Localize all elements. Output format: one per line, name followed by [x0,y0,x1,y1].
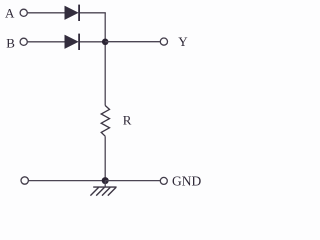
wire D1 to corner [80,12,106,14]
wire A to diode D1 [27,12,65,14]
ground hatch 2 [96,187,104,195]
terminal A [20,9,27,16]
svg-text:R: R [123,112,132,127]
wire B to diode D2 [27,41,65,43]
svg-text:A: A [5,5,15,20]
wire vertical from corner A to resistor [104,13,106,106]
wire resistor to bottom junction [104,136,106,180]
terminal B [20,38,27,45]
svg-text:Y: Y [178,34,188,49]
resistor R zigzag [101,106,109,137]
bottom junction node [102,177,109,184]
diode D2 cathode bar [78,34,80,50]
diode D1 cathode bar [78,5,80,21]
ground hatch 1 [90,187,98,195]
bottom wire right segment [105,180,160,182]
junction node at B/Y/vertical [102,39,109,46]
ground hatch 3 [102,187,110,195]
svg-text:GND: GND [172,174,201,189]
terminal GND [160,177,167,184]
ground hatch 4 [108,187,116,195]
svg-text:B: B [6,35,15,50]
ground stub wire [104,181,106,188]
terminal bottom-left [21,177,28,184]
bottom wire left segment [29,180,106,182]
diode D2 triangle [65,35,78,48]
wire D2 to junction [80,41,105,43]
ground bar [93,186,116,188]
diode D1 triangle [65,6,78,19]
wire junction to terminal Y [105,41,160,43]
terminal Y [160,38,167,45]
